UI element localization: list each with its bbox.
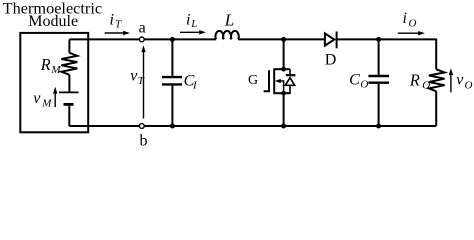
body diode anode stub bbox=[284, 85, 290, 93]
transistor Q1 body arrow bbox=[275, 79, 284, 93]
svg-text:O: O bbox=[422, 80, 430, 92]
wire top rail bbox=[69, 38, 216, 40]
label i_O bbox=[403, 10, 417, 29]
wire source vertical bbox=[283, 93, 285, 126]
svg-text:i: i bbox=[403, 10, 407, 27]
svg-text:L: L bbox=[224, 11, 234, 30]
node a bbox=[139, 37, 144, 42]
label v_T bbox=[130, 67, 145, 87]
transistor Q1 drain lead bbox=[274, 68, 290, 70]
wire top rail after diode to top-right corner bbox=[337, 38, 437, 40]
label v_M bbox=[33, 90, 52, 110]
arrow i_O bbox=[398, 31, 425, 35]
svg-text:a: a bbox=[139, 19, 146, 36]
label C_O bbox=[349, 71, 368, 90]
body diode cathode stub bbox=[289, 69, 291, 74]
svg-text:O: O bbox=[360, 79, 368, 91]
wire bottom rail bbox=[69, 125, 436, 127]
label R_M bbox=[40, 55, 62, 76]
junction dot C_O top bbox=[376, 37, 381, 42]
svg-text:T: T bbox=[115, 19, 122, 31]
junction dot switch source bottom bbox=[281, 124, 286, 129]
capacitor C_I bbox=[162, 39, 182, 126]
wire right vertical below R_O bbox=[435, 91, 437, 126]
wire source to module bottom bbox=[68, 106, 70, 126]
svg-text:M: M bbox=[41, 97, 52, 109]
junction dot drain lead bbox=[281, 67, 286, 72]
svg-text:O: O bbox=[409, 18, 417, 30]
transistor Q1 gate bbox=[264, 70, 269, 91]
body diode triangle bbox=[285, 78, 294, 86]
transistor Q1 channel bbox=[273, 68, 275, 94]
arrow v_M polarity bbox=[53, 87, 57, 107]
diode D triangle bbox=[325, 33, 334, 45]
junction dot switch drain top bbox=[281, 37, 286, 42]
wire top rail after inductor to diode bbox=[238, 38, 325, 40]
transistor Q1 source lead bbox=[274, 92, 290, 94]
svg-text:i: i bbox=[186, 11, 190, 28]
svg-text:Module: Module bbox=[28, 13, 78, 30]
source v_M battery top plate bbox=[59, 91, 79, 93]
svg-text:C: C bbox=[349, 71, 360, 88]
svg-text:G: G bbox=[248, 73, 258, 88]
resistor R_O bbox=[429, 69, 445, 91]
svg-text:D: D bbox=[325, 52, 337, 69]
diode D cathode bar bbox=[336, 32, 338, 49]
svg-text:T: T bbox=[138, 75, 145, 87]
inductor L bbox=[215, 31, 238, 39]
wire module internal top stub bbox=[68, 39, 70, 52]
svg-text:i: i bbox=[110, 12, 114, 29]
body diode cathode bar bbox=[286, 74, 296, 76]
wire resistor to source bbox=[68, 75, 70, 92]
capacitor C_O bbox=[368, 39, 389, 126]
svg-text:v: v bbox=[33, 90, 41, 107]
svg-text:O: O bbox=[465, 79, 473, 91]
label C_I bbox=[184, 72, 198, 91]
svg-text:R: R bbox=[409, 70, 420, 89]
junction dot C_O bottom bbox=[376, 124, 381, 129]
svg-text:R: R bbox=[40, 55, 51, 74]
label R_O bbox=[409, 70, 431, 91]
arrow i_T bbox=[105, 31, 130, 35]
svg-text:b: b bbox=[140, 132, 148, 147]
junction dot C_I bottom bbox=[170, 124, 175, 129]
wire drain vertical bbox=[283, 39, 285, 69]
arrow v_T bbox=[141, 45, 145, 118]
arrow v_O bbox=[449, 68, 453, 92]
arrow i_L bbox=[180, 30, 206, 34]
svg-text:v: v bbox=[456, 72, 464, 89]
svg-text:M: M bbox=[50, 64, 61, 76]
node b bbox=[139, 124, 144, 129]
label v_O bbox=[456, 72, 472, 92]
junction dot source lead bbox=[281, 91, 286, 96]
label Thermoelectric Module bbox=[3, 0, 102, 30]
label i_L bbox=[186, 11, 197, 30]
resistor R_M bbox=[61, 53, 77, 75]
svg-text:L: L bbox=[190, 18, 197, 30]
source v_M battery bottom plate bbox=[64, 103, 74, 106]
thermoelectric module box bbox=[20, 33, 88, 132]
junction dot C_I top bbox=[170, 37, 175, 42]
wire right vertical above R_O bbox=[435, 39, 437, 70]
label i_T bbox=[110, 12, 123, 31]
